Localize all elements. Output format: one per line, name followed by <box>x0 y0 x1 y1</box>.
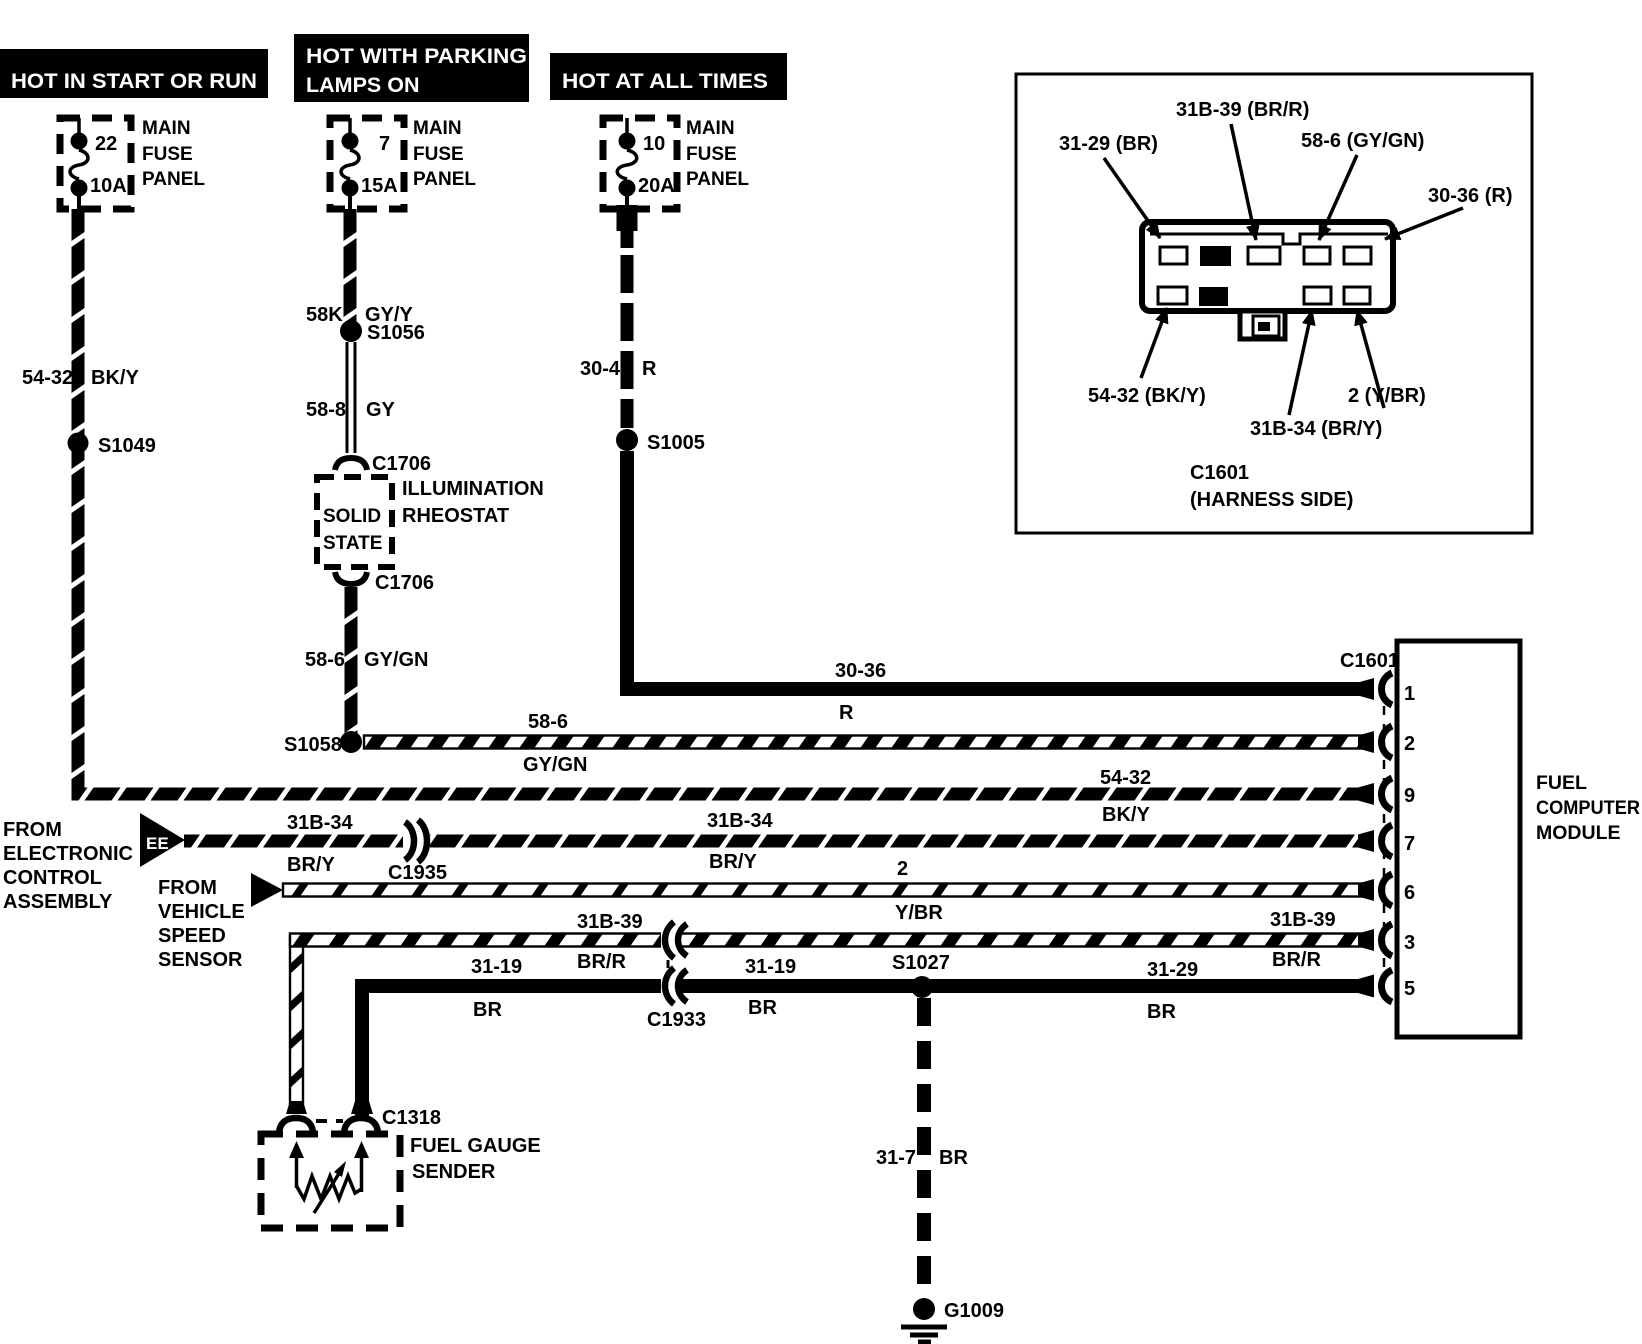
svg-text:31B-39 (BR/R): 31B-39 (BR/R) <box>1176 99 1309 121</box>
svg-text:6: 6 <box>1404 882 1415 904</box>
fuse panel box F10 (main fuse panel 3) <box>603 118 677 209</box>
svg-text:SENSOR: SENSOR <box>158 949 243 971</box>
fuel gauge sender variable resistor <box>289 1141 369 1213</box>
module connector pin 3 <box>1358 924 1415 956</box>
header HOT WITH PARKING LAMPS ON <box>294 34 529 102</box>
module connector pin 2 <box>1358 726 1415 758</box>
inset label C1601 (HARNESS SIDE) <box>1190 462 1353 511</box>
label MAIN FUSE PANEL 1 <box>142 118 205 190</box>
svg-text:10A: 10A <box>90 175 127 197</box>
svg-text:FUSE: FUSE <box>413 144 464 165</box>
svg-text:G1009: G1009 <box>944 1300 1004 1322</box>
svg-text:BR: BR <box>939 1147 968 1169</box>
svg-text:7: 7 <box>1404 833 1415 855</box>
svg-text:7: 7 <box>379 133 390 155</box>
fuse 10 20A <box>617 133 674 198</box>
svg-text:2 (Y/BR): 2 (Y/BR) <box>1348 385 1426 407</box>
svg-text:MAIN: MAIN <box>686 118 735 139</box>
wire 30-4 R dashed <box>580 205 657 428</box>
wire 31-7 BR dashed to ground <box>876 998 968 1292</box>
inset connector pins bottom row <box>1158 287 1370 306</box>
svg-text:C1706: C1706 <box>372 453 431 475</box>
svg-text:FUEL GAUGE: FUEL GAUGE <box>410 1135 541 1157</box>
svg-text:BR/Y: BR/Y <box>709 851 757 873</box>
svg-text:BR: BR <box>748 997 777 1019</box>
svg-text:STATE: STATE <box>323 533 382 554</box>
svg-text:C1935: C1935 <box>388 862 447 884</box>
svg-text:C1933: C1933 <box>647 1009 706 1031</box>
svg-text:PANEL: PANEL <box>686 169 749 190</box>
label MAIN FUSE PANEL 2 <box>413 118 476 190</box>
svg-text:BR: BR <box>473 999 502 1021</box>
module connector pin 9 <box>1358 778 1415 810</box>
svg-text:15A: 15A <box>361 175 398 197</box>
svg-text:R: R <box>642 358 657 380</box>
svg-text:30-36 (R): 30-36 (R) <box>1428 185 1512 207</box>
module connector pin 7 <box>1358 825 1415 857</box>
splice S1056 <box>340 320 425 344</box>
svg-text:COMPUTER: COMPUTER <box>1536 797 1640 819</box>
splice S1049 <box>68 433 156 458</box>
svg-text:FROM: FROM <box>3 819 62 841</box>
svg-text:MODULE: MODULE <box>1536 822 1621 844</box>
wire 2 Y/BR to pin 6 <box>283 858 1372 924</box>
inset box C1601 harness side <box>1016 74 1532 533</box>
connector C1318 <box>279 1101 441 1132</box>
illumination rheostat SOLID STATE box <box>317 477 392 567</box>
svg-text:2: 2 <box>897 858 908 880</box>
svg-text:SPEED: SPEED <box>158 925 226 947</box>
svg-text:ASSEMBLY: ASSEMBLY <box>3 891 113 913</box>
svg-text:ILLUMINATION: ILLUMINATION <box>402 478 544 500</box>
svg-text:31B-34 (BR/Y): 31B-34 (BR/Y) <box>1250 418 1382 440</box>
svg-text:C1706: C1706 <box>375 572 434 594</box>
module connector pin 5 <box>1358 970 1415 1002</box>
svg-text:58-8: 58-8 <box>306 399 346 421</box>
svg-text:S1056: S1056 <box>367 322 425 344</box>
inset label 58-6 (GY/GN) with arrow <box>1301 130 1424 240</box>
svg-text:BK/Y: BK/Y <box>91 367 139 389</box>
svg-text:2: 2 <box>1404 733 1415 755</box>
svg-text:31B-39: 31B-39 <box>1270 909 1336 931</box>
inset label 31-29 (BR) with arrow <box>1059 133 1160 238</box>
svg-text:31-19: 31-19 <box>745 956 796 978</box>
svg-text:BK/Y: BK/Y <box>1102 804 1150 826</box>
svg-text:MAIN: MAIN <box>142 118 191 139</box>
wire 31-19/31-29 BR thick to pin 5 and down to sender <box>362 956 1374 1118</box>
svg-text:58K: 58K <box>306 304 343 326</box>
svg-text:54-32: 54-32 <box>22 367 73 389</box>
svg-text:5: 5 <box>1404 978 1415 1000</box>
splice S1058 <box>284 731 362 756</box>
svg-text:HOT IN START OR RUN: HOT IN START OR RUN <box>11 69 257 93</box>
svg-text:GY: GY <box>366 399 396 421</box>
svg-text:(HARNESS SIDE): (HARNESS SIDE) <box>1190 489 1353 511</box>
inset label 2 (Y/BR) with arrow <box>1348 310 1426 408</box>
svg-text:SOLID: SOLID <box>323 506 381 527</box>
svg-text:31-7: 31-7 <box>876 1147 916 1169</box>
label 54-32 BK/Y vertical <box>22 367 139 389</box>
svg-text:22: 22 <box>95 133 117 155</box>
svg-text:PANEL: PANEL <box>413 169 476 190</box>
svg-text:CONTROL: CONTROL <box>3 867 102 889</box>
fuel gauge sender box <box>261 1134 541 1228</box>
svg-text:R: R <box>839 702 854 724</box>
wire 54-32 BK/Y vertical from fuse 22 <box>72 209 1373 801</box>
header HOT IN START OR RUN <box>0 49 268 98</box>
arrow from vehicle speed sensor <box>251 873 283 907</box>
svg-text:HOT AT ALL TIMES: HOT AT ALL TIMES <box>562 69 768 93</box>
svg-text:PANEL: PANEL <box>142 169 205 190</box>
svg-text:Y/BR: Y/BR <box>895 902 943 924</box>
svg-text:S1058: S1058 <box>284 734 342 756</box>
wire 58-6 GY/GN vertical <box>305 587 428 733</box>
svg-text:EE: EE <box>146 834 169 853</box>
wire 58-8 GY (double line) <box>306 342 396 453</box>
module connector pin 1 <box>1358 673 1415 705</box>
label ILLUMINATION RHEOSTAT <box>402 478 544 527</box>
svg-text:9: 9 <box>1404 785 1415 807</box>
inset label 30-36 (R) with arrow <box>1385 185 1512 239</box>
svg-text:31B-39: 31B-39 <box>577 911 643 933</box>
svg-text:C1318: C1318 <box>382 1107 441 1129</box>
svg-text:BR/R: BR/R <box>577 951 626 973</box>
wire 31B-39 BR/R to pin 3 and down to sender <box>290 909 1372 1104</box>
dashed link between connector halves <box>667 960 670 974</box>
svg-text:C1601: C1601 <box>1190 462 1249 484</box>
svg-text:BR/Y: BR/Y <box>287 854 335 876</box>
svg-text:30-36: 30-36 <box>835 660 886 682</box>
svg-text:1: 1 <box>1404 683 1415 705</box>
fuse panel box F22 (main fuse panel 1) <box>60 118 131 212</box>
wire 31B-34 BR/Y to pin 7 <box>184 810 1372 876</box>
svg-text:MAIN: MAIN <box>413 118 462 139</box>
svg-text:SENDER: SENDER <box>412 1161 496 1183</box>
header HOT AT ALL TIMES <box>550 53 787 100</box>
svg-text:30-4: 30-4 <box>580 358 621 380</box>
svg-text:31-29: 31-29 <box>1147 959 1198 981</box>
svg-text:10: 10 <box>643 133 665 155</box>
svg-text:FUSE: FUSE <box>142 144 193 165</box>
svg-text:FROM: FROM <box>158 877 217 899</box>
inset label 31B-34 (BR/Y) with arrow <box>1250 310 1382 440</box>
svg-text:BR/R: BR/R <box>1272 949 1321 971</box>
connector C1706 upper <box>335 453 431 475</box>
svg-text:GY/GN: GY/GN <box>364 649 428 671</box>
connector C1706 lower <box>335 572 434 594</box>
inset label 54-32 (BK/Y) with arrow <box>1088 308 1206 407</box>
connector C1935 <box>388 820 447 884</box>
splice S1005 <box>616 429 705 454</box>
dashed connector line C1601 at module <box>1340 650 1399 972</box>
fuel computer module box <box>1397 641 1640 1037</box>
fuse 7 15A <box>341 133 398 198</box>
svg-text:FUEL: FUEL <box>1536 772 1587 794</box>
svg-text:54-32 (BK/Y): 54-32 (BK/Y) <box>1088 385 1206 407</box>
svg-text:3: 3 <box>1404 932 1415 954</box>
svg-text:54-32: 54-32 <box>1100 767 1151 789</box>
svg-text:58-6 (GY/GN): 58-6 (GY/GN) <box>1301 130 1424 152</box>
splice S1027 <box>892 952 950 998</box>
fuse 22 10A <box>70 133 127 198</box>
inset connector pins top row <box>1160 246 1371 266</box>
svg-text:ELECTRONIC: ELECTRONIC <box>3 843 133 865</box>
arrow EE from electronic control assembly <box>140 813 185 867</box>
svg-text:VEHICLE: VEHICLE <box>158 901 245 923</box>
svg-text:S1005: S1005 <box>647 432 705 454</box>
svg-text:20A: 20A <box>638 175 675 197</box>
svg-text:C1601: C1601 <box>1340 650 1399 672</box>
svg-text:58-6: 58-6 <box>305 649 345 671</box>
svg-text:31-19: 31-19 <box>471 956 522 978</box>
ground G1009 <box>901 1298 1004 1342</box>
wire 58-6 GY/GN horizontal to pin 2 <box>364 711 1372 776</box>
svg-text:RHEOSTAT: RHEOSTAT <box>402 505 509 527</box>
svg-text:31B-34: 31B-34 <box>287 812 353 834</box>
svg-text:S1027: S1027 <box>892 952 950 974</box>
svg-text:GY/GN: GY/GN <box>523 754 587 776</box>
connector on 31B-39 (upper half of C1933 pair) <box>661 922 687 958</box>
label FROM VEHICLE SPEED SENSOR <box>158 877 245 971</box>
label MAIN FUSE PANEL 3 <box>686 118 749 190</box>
label 54-32 BK/Y horizontal <box>1100 767 1151 826</box>
inset label 31B-39 (BR/R) with arrow <box>1176 99 1309 240</box>
wire 30-36 R to pin 1 <box>627 451 1374 724</box>
svg-text:31B-34: 31B-34 <box>707 810 773 832</box>
svg-text:58-6: 58-6 <box>528 711 568 733</box>
module connector pin 6 <box>1358 874 1415 906</box>
fuse panel box F7 (main fuse panel 2) <box>330 118 404 212</box>
svg-text:HOT WITH PARKING: HOT WITH PARKING <box>306 44 527 68</box>
svg-text:LAMPS ON: LAMPS ON <box>306 73 419 97</box>
svg-text:31-29 (BR): 31-29 (BR) <box>1059 133 1158 155</box>
svg-text:S1049: S1049 <box>98 435 156 457</box>
connector C1933 <box>647 968 706 1031</box>
inset connector C1601 body <box>1142 222 1393 339</box>
svg-text:BR: BR <box>1147 1001 1176 1023</box>
svg-text:FUSE: FUSE <box>686 144 737 165</box>
wire 58K GY/Y <box>306 209 413 326</box>
label FROM ELECTRONIC CONTROL ASSEMBLY <box>3 819 133 913</box>
